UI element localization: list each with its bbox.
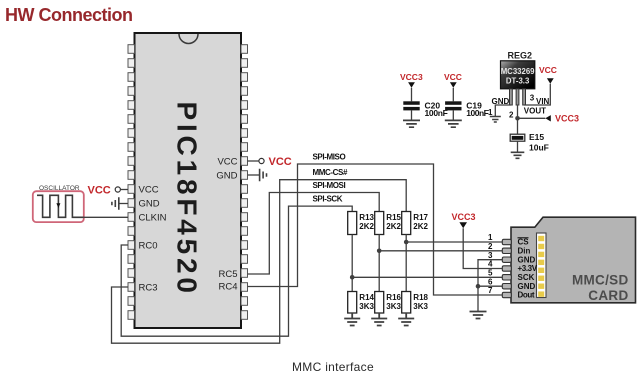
resistor R15 — [375, 212, 384, 235]
wire VOUT — [518, 105, 546, 118]
VCC3 arrow at VOUT — [545, 115, 551, 121]
svg-text:3K3: 3K3 — [359, 302, 374, 311]
ground under card — [470, 312, 487, 319]
wire Din row to card pin2 — [379, 250, 502, 252]
ground under R14 — [344, 313, 360, 326]
ground under R16 — [371, 313, 387, 326]
svg-text:VCC: VCC — [269, 156, 292, 168]
wire card GND pin3 down — [478, 260, 503, 312]
svg-text:REG2: REG2 — [508, 51, 533, 61]
ground reg — [490, 117, 501, 123]
MMC/SD card connector body — [511, 217, 636, 303]
IC U1 left pins — [128, 45, 135, 320]
wire VCC circle to pin — [120, 189, 128, 191]
svg-text:VCC: VCC — [88, 184, 111, 196]
svg-text:R13: R13 — [359, 213, 374, 222]
capacitor E15 — [517, 118, 519, 134]
resistor R17 — [402, 212, 411, 235]
svg-text:2K2: 2K2 — [413, 222, 428, 231]
node R13/SCK junction — [350, 275, 355, 280]
svg-text:CLKIN: CLKIN — [139, 212, 167, 223]
wire RC3 to MMC-CS# to R17 — [112, 180, 407, 344]
svg-text:R17: R17 — [413, 213, 428, 222]
svg-text:100nF: 100nF — [466, 108, 488, 118]
node GND junction — [476, 284, 481, 289]
resistor R14 — [348, 292, 357, 314]
svg-text:MMC-CS#: MMC-CS# — [313, 168, 348, 177]
svg-text:1: 1 — [488, 108, 493, 117]
wire reg GND to ground — [495, 105, 511, 116]
ground right of IC — [248, 174, 260, 176]
card contact strip — [537, 233, 547, 298]
wire RC4 to SPI-MISO to card Dout — [248, 164, 503, 295]
svg-text:3: 3 — [488, 251, 493, 260]
svg-text:MMC/SD: MMC/SD — [572, 273, 629, 288]
svg-text:RC3: RC3 — [139, 282, 158, 293]
svg-text:E15: E15 — [529, 132, 544, 142]
wire CS row to card pin1 — [406, 241, 502, 243]
svg-text:R18: R18 — [413, 293, 428, 302]
capacitor C20 — [411, 88, 413, 102]
svg-text:Dout: Dout — [518, 291, 535, 300]
svg-text:VCC: VCC — [139, 184, 159, 195]
svg-text:PIC18F4520: PIC18F4520 — [172, 102, 203, 297]
IC U1 right pins — [241, 45, 248, 320]
svg-text:SPI-SCK: SPI-SCK — [313, 195, 343, 204]
svg-text:3: 3 — [530, 93, 535, 102]
ground C20 — [403, 120, 420, 127]
regulator U2 MC33269 body — [501, 61, 535, 89]
svg-text:VCC3: VCC3 — [400, 72, 423, 82]
svg-text:10uF: 10uF — [529, 143, 549, 153]
svg-text:VCC: VCC — [444, 72, 462, 82]
svg-text:SCK: SCK — [518, 273, 535, 282]
VCC3 arrow C20 — [408, 82, 415, 88]
card pin stubs — [502, 239, 511, 297]
resistor R13 — [348, 212, 357, 235]
svg-text:GND: GND — [518, 255, 536, 264]
wire SCK row to card pin5 — [352, 276, 502, 278]
svg-text:100nF: 100nF — [425, 108, 448, 118]
svg-text:2: 2 — [488, 242, 493, 251]
wire R15 to R16 — [378, 235, 380, 292]
svg-text:VCC: VCC — [539, 65, 557, 75]
svg-text:VOUT: VOUT — [524, 107, 546, 116]
svg-text:RC5: RC5 — [218, 269, 237, 280]
node VOUT junction — [515, 116, 520, 121]
IC U1 notch — [179, 34, 198, 43]
svg-text:VCC: VCC — [217, 156, 237, 167]
svg-text:R14: R14 — [359, 293, 374, 302]
VCC terminal circle left — [115, 187, 120, 192]
svg-text:4: 4 — [488, 260, 493, 269]
wire VCC circle right — [248, 160, 259, 162]
ground under R18 — [398, 313, 414, 326]
wire RC5 to SPI-MOSI to R15 — [248, 193, 380, 275]
capacitor C19 — [452, 88, 454, 102]
svg-text:GND: GND — [216, 170, 237, 181]
svg-text:+3.3V: +3.3V — [518, 264, 538, 273]
svg-text:VCC3: VCC3 — [555, 114, 579, 124]
svg-text:SPI-MOSI: SPI-MOSI — [313, 181, 346, 190]
svg-text:R15: R15 — [386, 213, 401, 222]
svg-text:Din: Din — [518, 246, 531, 255]
svg-text:MMC interface: MMC interface — [292, 360, 374, 374]
resistor R18 — [402, 292, 411, 314]
svg-text:6: 6 — [488, 277, 493, 286]
ground C19 — [445, 120, 462, 127]
wire VCC3 to card +3.3V pin4 — [463, 228, 502, 268]
node R15/Din junction — [377, 249, 382, 254]
svg-text:RC0: RC0 — [139, 240, 158, 251]
VCC arrow C19 — [450, 82, 457, 88]
svg-text:3K3: 3K3 — [386, 302, 401, 311]
svg-text:MC33269: MC33269 — [501, 67, 535, 76]
wire RC0 to SPI-SCK to R13 — [121, 206, 352, 336]
svg-text:GND: GND — [518, 282, 536, 291]
ground left of IC — [119, 203, 128, 205]
wire VIN to VCC — [524, 84, 550, 105]
oscillator arrow — [56, 203, 60, 208]
svg-text:DT-3.3: DT-3.3 — [506, 77, 530, 86]
card pin numbers 1-7 — [488, 233, 493, 295]
wire R13 to R14 — [351, 235, 353, 292]
svg-text:2K2: 2K2 — [359, 222, 374, 231]
svg-text:5: 5 — [488, 269, 493, 278]
oscillator box — [33, 191, 84, 222]
VCC terminal circle right — [259, 158, 264, 163]
svg-text:2K2: 2K2 — [386, 222, 401, 231]
svg-text:R16: R16 — [386, 293, 401, 302]
svg-text:CS: CS — [518, 238, 530, 247]
wire oscillator to CLKIN — [84, 216, 128, 218]
svg-text:CARD: CARD — [588, 288, 628, 303]
svg-text:3K3: 3K3 — [413, 302, 428, 311]
regulator legs — [510, 89, 526, 105]
IC U1 PIC18F4520 body — [135, 33, 242, 328]
wire R17 to R18 — [405, 235, 407, 292]
svg-text:VCC3: VCC3 — [452, 212, 476, 222]
svg-text:SPI-MISO: SPI-MISO — [313, 153, 346, 162]
svg-text:1: 1 — [488, 233, 493, 242]
svg-text:RC4: RC4 — [218, 282, 237, 293]
svg-text:GND: GND — [139, 198, 160, 209]
svg-text:7: 7 — [488, 286, 493, 295]
resistor R16 — [375, 292, 384, 314]
node R17/CS junction — [404, 240, 409, 245]
VCC arrow reg — [547, 78, 554, 84]
VCC3 arrow at card — [459, 222, 467, 228]
svg-text:HW Connection: HW Connection — [5, 5, 132, 25]
svg-text:2: 2 — [509, 110, 514, 119]
ground E15 — [511, 152, 525, 158]
wire card GND pin6 — [478, 285, 503, 287]
oscillator waveform — [37, 195, 84, 217]
